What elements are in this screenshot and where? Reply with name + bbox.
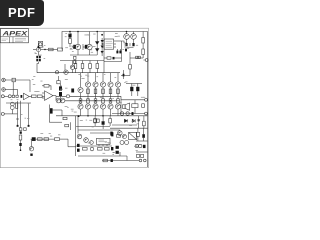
transistor Q16: [90, 141, 94, 145]
capacitor Cin1: [12, 95, 14, 97]
wire drop x78: [77, 116, 79, 134]
capacitor C15 dark: [19, 143, 21, 146]
capacitor C26: [141, 154, 144, 157]
transistor Q11: [122, 134, 126, 138]
transistor QB4: [108, 104, 113, 109]
resistor R40: [129, 65, 132, 70]
transistor Q17: [118, 131, 123, 136]
resistor R38: [74, 61, 76, 64]
wire y75.5: [121, 75, 130, 77]
wire y125: [112, 124, 137, 126]
resistor RB0: [79, 99, 82, 103]
diode Q5e dark: [132, 43, 134, 46]
capacitor C3a electrolytic: [59, 86, 62, 90]
wire output node: [121, 96, 145, 100]
capacitor C4 dark: [68, 34, 71, 38]
resistor R39: [107, 57, 111, 59]
diode D8 dark: [116, 146, 119, 149]
resistor R4: [16, 103, 18, 109]
resistor R28: [105, 148, 110, 151]
diode D7 dark: [102, 122, 105, 125]
transistor Q9: [60, 98, 65, 103]
IC U2 pins right: [114, 40, 122, 42]
wire y146.8: [68, 146, 76, 148]
capacitor C8 dark: [20, 131, 22, 133]
diode D4 dark: [85, 45, 88, 49]
transistor QA1: [85, 82, 90, 87]
wire vertical x12.3: [11, 110, 13, 114]
wire y58 left: [104, 57, 107, 59]
inductor L1: [132, 104, 138, 108]
wire y61.5: [104, 61, 122, 63]
PDF badge: [0, 0, 44, 26]
junction dots on rail: [69, 31, 71, 33]
node dark: [78, 115, 80, 117]
zener ZD1: [96, 42, 99, 45]
wire R6 to V+: [61, 44, 63, 50]
capacitor C2: [57, 81, 60, 84]
capacitor C12 dark: [132, 112, 134, 115]
wire row y146: [76, 145, 112, 147]
wire bus y60.5: [60, 60, 104, 62]
wire pair join: [127, 46, 134, 48]
transistor Q2: [75, 44, 80, 49]
resistor RA2: [94, 89, 97, 94]
zener column ZD4: [101, 46, 104, 49]
transistor QB0: [78, 104, 83, 109]
resistor R23 vertical: [19, 135, 22, 140]
transistor Q14: [77, 134, 82, 139]
capacitor C14 dark: [110, 132, 112, 136]
transistor Q6: [70, 65, 74, 69]
diode D11: [137, 120, 140, 123]
wire V+ top rail: [62, 32, 148, 45]
terminal T4: [144, 159, 147, 162]
capacitor C25: [137, 154, 140, 157]
resistor R34: [63, 117, 67, 119]
wire bus y72.7: [37, 72, 120, 74]
junction dots bus: [80, 100, 82, 102]
polarity mark: [30, 154, 32, 156]
resistor R5: [49, 48, 54, 51]
speaker SP1: [123, 105, 126, 109]
resistor RA4: [109, 89, 112, 94]
wire y160.5: [102, 160, 139, 162]
trimmer VR1: [10, 102, 14, 106]
input RCA J4: [1, 112, 4, 115]
resistor Rin circle: [8, 95, 11, 98]
transistor QA2: [93, 82, 98, 87]
wire vertical x28.5: [28, 103, 30, 126]
resistor R24: [94, 119, 97, 123]
transistor QA5: [115, 82, 120, 87]
node dot: [20, 149, 22, 151]
diode DP2 dark: [119, 51, 121, 54]
resistor RA3: [102, 89, 105, 94]
zener column ZD3: [101, 40, 104, 43]
resistor R31: [44, 138, 49, 141]
relay RL1: [129, 132, 137, 139]
capacitor C9: [122, 49, 125, 51]
wire bus y115.8: [56, 115, 148, 117]
resistor R37: [74, 56, 76, 59]
transistor Q15: [84, 138, 89, 143]
resistor R11 vertical: [96, 64, 99, 69]
zener column ZD5: [101, 51, 104, 54]
transistor QA0: [78, 87, 83, 92]
diode D5: [124, 119, 127, 122]
resistor RB1: [87, 99, 90, 103]
transistor Q13: [125, 141, 129, 145]
wire y141: [136, 140, 148, 142]
capacitor C6: [19, 128, 22, 131]
capacitor C3b electrolytic: [59, 92, 62, 96]
capacitor C1: [12, 78, 15, 82]
wire vertical x17.5: [17, 101, 19, 126]
resistor R10 vertical: [89, 64, 92, 69]
wire x123.5: [123, 70, 125, 79]
label text specks: [11, 33, 146, 155]
input RCA J2: [2, 88, 6, 92]
wire vertical x90: [89, 32, 91, 45]
ground GND1: [16, 118, 19, 120]
diode D2c: [39, 59, 41, 61]
input RCA J3: [1, 95, 4, 98]
capacitor C11 electrolytic: [136, 87, 139, 91]
capacitor Cin2: [16, 95, 18, 97]
resistor R15 vertical right: [142, 38, 145, 44]
wire y113.9 left: [4, 113, 17, 115]
diode D3 dark: [73, 45, 76, 49]
resistor R36: [136, 132, 139, 136]
resistor R20 circle: [120, 112, 123, 115]
capacitor C18 dark: [111, 159, 113, 162]
IC U2 pins left: [102, 40, 104, 42]
resistor R26: [83, 148, 88, 151]
transistor QB1: [85, 104, 90, 109]
wire right edge drop: [147, 32, 149, 168]
capacitor C24 dark: [143, 145, 146, 148]
resistor R2: [38, 95, 43, 98]
title block small text: [2, 39, 27, 42]
resistor R42: [138, 56, 140, 58]
resistor R30: [38, 138, 43, 141]
wire y103: [6, 102, 31, 104]
transistor QB3: [100, 104, 105, 109]
IC U3: [97, 138, 111, 144]
title block box: [0, 29, 28, 43]
output terminal T2: [145, 112, 148, 115]
input RCA J1: [2, 78, 6, 82]
pilot P1: [135, 144, 138, 147]
resistor R21 circle: [126, 112, 129, 115]
wire y152: [136, 151, 148, 153]
transistor Q3: [87, 44, 92, 49]
capacitor C16 dark: [77, 144, 80, 147]
transistor Q8: [56, 98, 61, 103]
buffer A1 triangle: [24, 93, 30, 100]
wire Q1 emitter down: [37, 62, 39, 73]
wire feedback: [48, 105, 50, 123]
capacitor C7: [24, 128, 27, 131]
transistor QA3: [100, 82, 105, 87]
wire y139: [31, 138, 55, 140]
diode D2b: [36, 59, 38, 61]
capacitor C27 dark: [113, 57, 115, 60]
transistor Q1: [36, 47, 40, 51]
diode D1: [36, 56, 38, 58]
resistor R43: [65, 124, 69, 126]
capacitor C21: [97, 119, 99, 122]
transistor Q7: [64, 70, 68, 74]
wire x121.5: [121, 41, 123, 62]
resistor RB5: [117, 99, 120, 103]
diode D10 dark: [32, 138, 35, 141]
output terminal T1: [145, 98, 148, 101]
resistor R1: [32, 95, 37, 98]
node dark a: [17, 125, 19, 127]
node dark: [101, 34, 103, 36]
resistor R7 vertical: [69, 39, 72, 44]
capacitor C23 dark: [50, 108, 53, 113]
wire input: [5, 79, 30, 81]
resistor Rvas circle: [66, 95, 69, 98]
resistor R25: [109, 119, 112, 123]
diode D9 dark: [116, 151, 119, 154]
resistor R41: [136, 56, 138, 58]
wire vertical x70: [69, 32, 71, 39]
resistor Rc circle: [55, 71, 58, 74]
resistor R27: [98, 148, 103, 151]
terminal V+: [145, 59, 148, 62]
transistor Q4: [124, 34, 130, 40]
wire y58 right: [130, 57, 143, 59]
transistor Q5: [131, 34, 137, 40]
wire bus y128.2: [110, 127, 148, 129]
wire drop x68: [67, 139, 69, 147]
node input join: [29, 80, 31, 92]
resistor R3 feedback: [44, 85, 49, 88]
capacitor C13 dark: [142, 134, 145, 138]
resistor RB2: [94, 99, 97, 103]
op-amp U1: [45, 91, 54, 101]
svg-text:APEX: APEX: [1, 30, 28, 37]
pilot P2: [139, 144, 142, 147]
capacitor C28 dark: [123, 74, 125, 77]
wire y130: [78, 129, 120, 131]
wire x75 drop: [75, 116, 77, 156]
capacitor C10 electrolytic: [130, 87, 133, 91]
node dark b: [28, 125, 30, 127]
capacitor C20: [94, 119, 96, 122]
resistor RA5: [117, 89, 120, 94]
wire vertical x17.6: [17, 90, 19, 96]
capacitor C5 dark: [71, 89, 74, 93]
resistor R8 vertical: [74, 64, 77, 69]
resistor R29: [103, 159, 107, 162]
wire x130: [129, 52, 131, 65]
transistor QB5: [115, 104, 120, 109]
wire vertical x78: [77, 32, 79, 45]
wire y113.5: [112, 113, 145, 115]
transistor QA4: [108, 82, 113, 87]
transistor QB2: [93, 104, 98, 109]
wire vertical x20.5: [20, 101, 22, 128]
diode Din dark: [21, 95, 23, 98]
wire vertical x13: [12, 82, 14, 95]
resistor R6: [58, 48, 63, 51]
resistor RB3: [102, 99, 105, 103]
resistor RB4: [109, 99, 112, 103]
wire drop x31.5: [31, 139, 33, 146]
transistor Q12: [120, 141, 124, 145]
wire x70.5: [70, 122, 72, 130]
diode DP1 dark: [116, 51, 118, 54]
terminal T3: [139, 159, 142, 162]
wire y156: [78, 155, 127, 157]
resistor R35: [143, 121, 146, 126]
wire main bus y101: [65, 100, 120, 102]
wire x120 drop: [119, 152, 121, 156]
zener ZD2: [96, 49, 99, 52]
resistor R32: [55, 138, 60, 141]
wire bus y96.3: [56, 95, 121, 97]
resistor R22: [117, 135, 121, 138]
capacitor C17 dark: [111, 147, 113, 150]
current source CS1: [38, 41, 42, 47]
resistor R33: [142, 104, 145, 108]
wire y83.5 top: [126, 83, 142, 85]
wire y133: [90, 132, 111, 134]
resistor R9 vertical: [81, 64, 84, 69]
capacitor C16b dark: [77, 149, 80, 152]
diode Q4e dark: [125, 43, 127, 46]
capacitor C22 dark: [111, 132, 113, 136]
wire bus y55: [70, 54, 97, 56]
capacitor C19: [29, 147, 33, 151]
trimmer VR2: [10, 106, 14, 110]
diode D6: [132, 119, 135, 122]
resistor RA1: [87, 89, 90, 94]
resistor R16 vertical right: [142, 49, 145, 55]
transistor Q18: [90, 147, 94, 151]
wire U2 to Q4: [122, 41, 127, 43]
diode D2: [39, 56, 41, 58]
schematic frame: [0, 28, 148, 168]
wire y126.5: [76, 126, 110, 128]
IC U2 box: [104, 39, 113, 49]
wire y110: [52, 109, 62, 111]
